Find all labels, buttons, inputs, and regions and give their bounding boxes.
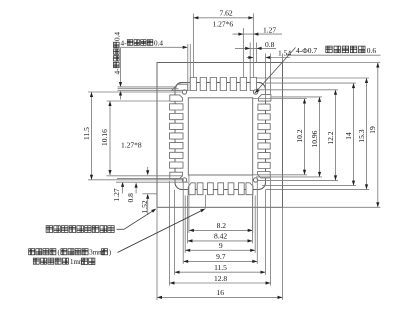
ext line y193.8: [143, 193, 158, 195]
hole bottom-right (phi0.7): [253, 178, 257, 182]
svg-text:0.8: 0.8: [265, 40, 275, 49]
svg-text:4-: 4-: [121, 40, 128, 48]
svg-text:1.27: 1.27: [112, 188, 121, 201]
pad L3: [170, 123, 184, 129]
dim 0.8 (top): [235, 47, 276, 49]
svg-text:): ): [109, 250, 111, 257]
svg-text:12.8: 12.8: [214, 274, 227, 283]
pad R3: [258, 124, 270, 130]
dim 1.27 (bottom-left): [122, 183, 124, 193]
pad R5: [258, 143, 270, 149]
ext line 0.8 right: [256, 43, 258, 63]
svg-text:10.2: 10.2: [295, 129, 304, 142]
svg-text:1.27*8: 1.27*8: [121, 140, 142, 149]
dim 7.62: [193, 17, 253, 19]
hole bottom-left (phi0.7): [182, 178, 186, 182]
ext line 1.27 left: [242, 28, 244, 77]
svg-text:10.96: 10.96: [310, 130, 319, 147]
svg-text:0.4: 0.4: [113, 32, 121, 41]
inner keepout rect 8.2 x 10.2: [188, 98, 252, 175]
pad T4: [220, 78, 226, 91]
corner pad left-top (D): [170, 95, 183, 101]
pad R7: [258, 162, 270, 168]
dim 11.5 (bottom): [175, 271, 266, 273]
pad T6: [240, 78, 246, 91]
dim 8.2 (bottom): [189, 229, 253, 231]
hole top-right (phi0.7): [253, 90, 257, 94]
ext line y182.2: [116, 181, 188, 183]
corner pad bottom-right (D): [246, 183, 253, 195]
dim 9.7 (bottom): [183, 260, 257, 262]
corner pad right-top (D): [258, 94, 271, 101]
svg-text:0.6: 0.6: [367, 46, 377, 55]
pad B1: [197, 183, 203, 195]
svg-text:11.5: 11.5: [214, 263, 227, 272]
dim 1.54 + note underline: [247, 57, 254, 59]
ext frame top right: [283, 62, 381, 64]
dim 12.8 (bottom): [170, 282, 271, 284]
svg-text:8.42: 8.42: [214, 232, 227, 241]
pad T7: [250, 78, 256, 91]
pad B3: [218, 183, 224, 195]
pad T5: [230, 78, 236, 91]
pad T3: [210, 78, 216, 91]
ext line y101: [107, 100, 171, 102]
note underline: [287, 54, 381, 56]
note 4-direction 0.4 (vertical text): [113, 32, 121, 75]
svg-text:4-Φ0.7: 4-Φ0.7: [296, 46, 317, 55]
ext line pads right ext: [270, 54, 272, 96]
pad R6: [258, 153, 270, 159]
dim 1.52 (bottom-left): [147, 167, 149, 174]
pad L1: [170, 104, 184, 110]
ext line body right ext: [265, 54, 267, 102]
leader to top-right hole: [255, 48, 296, 94]
svg-text:0.4: 0.4: [154, 40, 163, 48]
ext line 0.8 left: [249, 43, 251, 78]
dim 15.3 (right): [366, 78, 368, 189]
ext line y175.8: [107, 175, 184, 177]
svg-text:10.16: 10.16: [100, 129, 109, 146]
module body outline (rounded): [175, 83, 266, 190]
svg-text:19: 19: [368, 126, 377, 134]
pad B2: [208, 183, 214, 195]
corner pad bottom-left (D): [188, 183, 195, 195]
ext frame bottom right: [283, 206, 381, 208]
leader from fiber note to pad: [118, 209, 205, 252]
pad T1: [190, 78, 196, 91]
pad L4: [170, 133, 184, 139]
pad L7: [170, 162, 184, 168]
corner pad left-bottom (D): [170, 172, 183, 179]
svg-text:0.8: 0.8: [126, 193, 135, 203]
ext line 7.62 right: [252, 14, 254, 78]
hole top-left (phi0.7): [182, 90, 186, 94]
ext line x190.3: [189, 44, 191, 91]
dim 8.42 (bottom): [188, 240, 253, 242]
svg-text:9: 9: [219, 241, 223, 250]
svg-text:1.52: 1.52: [140, 200, 149, 213]
dim 9 (bottom): [185, 249, 255, 251]
dim 11.5 (left): [91, 92, 93, 180]
dim 19 (right): [377, 63, 379, 208]
note: keepout frame text: [46, 226, 53, 233]
dim 16 (bottom): [157, 296, 283, 298]
svg-text:11.5: 11.5: [82, 127, 91, 140]
body corner arcs redrawn over pads: [175, 83, 182, 90]
svg-text:7.62: 7.62: [219, 8, 232, 17]
corner pad right-bottom (D): [258, 172, 271, 179]
dim 10.96 (right): [319, 97, 321, 177]
pad L5: [170, 143, 184, 149]
svg-text:1.54: 1.54: [278, 48, 291, 57]
leader vertical to pad: [204, 195, 206, 209]
svg-text:15.3: 15.3: [357, 129, 366, 142]
dim 14 (right): [353, 83, 355, 186]
ext line hole BL: [88, 179, 182, 181]
ext line 7.62 left: [192, 14, 194, 78]
dim 10.2 (right): [304, 99, 306, 175]
svg-text:12.2: 12.2: [326, 131, 335, 144]
ext line y88.7: [118, 88, 179, 90]
note: fiber text line1: [29, 249, 35, 255]
pad L2: [170, 114, 184, 120]
dim 0.4 vertical arrows at top-left: [120, 47, 122, 86]
ext line y178.6: [117, 178, 183, 180]
pad B5: [238, 183, 244, 195]
dim 0.8 (bottom-left): [135, 184, 137, 194]
dim 1.27 (top): [233, 33, 283, 35]
leader line 0.4: [121, 46, 187, 48]
pad B4: [228, 183, 234, 195]
ext line frame right ext: [282, 54, 284, 63]
svg-text:16: 16: [217, 288, 225, 297]
dim 12.2 (right): [335, 90, 337, 181]
note: fiber text line2: [33, 258, 39, 264]
pad R4: [258, 133, 270, 139]
leader to frame corner: [117, 228, 125, 230]
svg-text:1.27*6: 1.27*6: [212, 20, 233, 29]
svg-text:4-: 4-: [113, 68, 121, 75]
pad L6: [170, 152, 184, 158]
ext line y86.9: [118, 86, 178, 88]
corner pad top-left (D, pin1): [172, 84, 188, 90]
pad T2: [200, 78, 206, 91]
svg-text:8.2: 8.2: [217, 221, 227, 230]
pad R2: [258, 114, 270, 120]
ext line y90.5: [118, 90, 190, 92]
dim 10.16 (left): [109, 101, 111, 175]
outer module frame 16x19: [157, 63, 283, 208]
pad R1: [258, 104, 270, 110]
ext line hole TL: [88, 91, 182, 93]
svg-text:9.7: 9.7: [216, 252, 226, 261]
ext line x187.8: [187, 44, 189, 90]
svg-text:1.27: 1.27: [263, 26, 276, 35]
svg-text:14: 14: [344, 132, 353, 140]
